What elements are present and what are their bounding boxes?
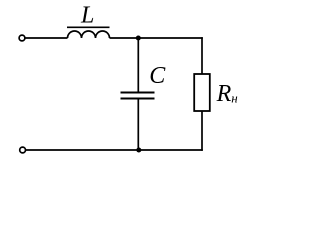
wire right vertical bottom (resistor to corner): [201, 111, 203, 151]
top-left input terminal: [19, 35, 25, 41]
capacitor C bottom plate: [121, 98, 155, 100]
svg-text:Rн: Rн: [216, 81, 238, 107]
wire inductor to top-right corner: [110, 37, 203, 39]
wire capacitor bottom plate to bottom node: [137, 99, 139, 151]
wire top-left to inductor: [25, 37, 67, 39]
node junction bottom: [136, 148, 141, 153]
inductor bar: [67, 26, 110, 28]
bottom-left input terminal: [20, 147, 26, 153]
bottom wire: [26, 149, 203, 151]
resistor Rn body: [194, 74, 210, 111]
wire right vertical top (corner to resistor): [201, 37, 203, 74]
svg-text:C: C: [149, 63, 166, 89]
wire node to capacitor top plate: [137, 38, 139, 93]
node junction top: [136, 36, 141, 41]
inductor L: [68, 31, 110, 38]
svg-text:L: L: [80, 2, 94, 28]
capacitor C top plate: [121, 92, 155, 94]
